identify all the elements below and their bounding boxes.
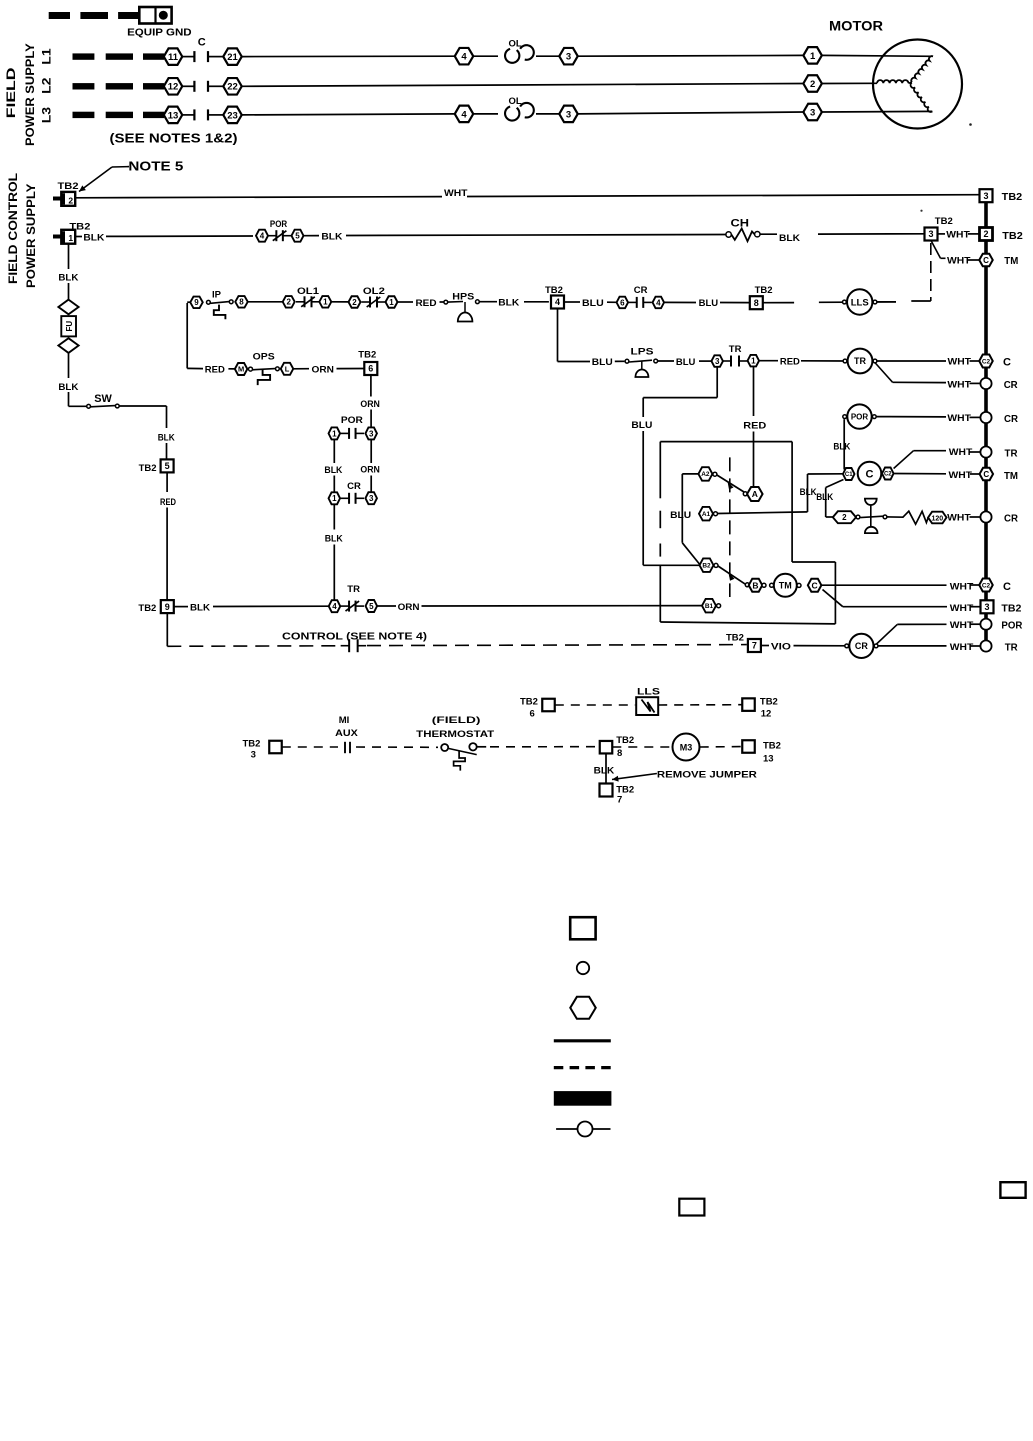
svg-text:4: 4	[555, 297, 560, 307]
svg-text:L2: L2	[39, 77, 53, 94]
svg-text:LPS: LPS	[631, 347, 654, 358]
svg-text:WHT: WHT	[950, 581, 974, 592]
svg-text:LLS: LLS	[851, 297, 869, 308]
svg-text:8: 8	[754, 298, 759, 308]
svg-text:BLK: BLK	[158, 433, 175, 444]
svg-text:1: 1	[323, 298, 328, 307]
svg-text:2: 2	[842, 513, 847, 522]
svg-text:3: 3	[715, 357, 720, 366]
svg-text:120: 120	[931, 515, 943, 522]
svg-text:4: 4	[260, 232, 265, 241]
svg-text:L: L	[285, 365, 290, 374]
svg-text:CR: CR	[1004, 379, 1018, 391]
svg-text:WHT: WHT	[947, 513, 971, 524]
svg-text:7: 7	[752, 641, 757, 651]
svg-text:REMOVE JUMPER: REMOVE JUMPER	[657, 770, 757, 781]
svg-text:TR: TR	[1005, 641, 1018, 653]
svg-text:M: M	[238, 365, 244, 374]
svg-text:4: 4	[656, 298, 661, 307]
svg-text:TB2: TB2	[763, 740, 781, 751]
svg-text:22: 22	[227, 82, 238, 93]
svg-text:ORN: ORN	[360, 399, 380, 410]
svg-text:IP: IP	[212, 289, 222, 300]
svg-text:TB2: TB2	[760, 696, 778, 707]
svg-text:A: A	[752, 489, 758, 499]
svg-text:13: 13	[168, 110, 179, 121]
svg-text:WHT: WHT	[950, 620, 974, 631]
svg-text:BLK: BLK	[594, 766, 615, 777]
svg-text:TB2: TB2	[1002, 230, 1023, 242]
svg-text:A2: A2	[701, 471, 710, 478]
svg-text:BLU: BLU	[670, 510, 691, 521]
svg-text:CONTROL (SEE NOTE 4): CONTROL (SEE NOTE 4)	[282, 631, 427, 643]
svg-text:CH: CH	[731, 218, 750, 230]
svg-text:C: C	[983, 470, 989, 479]
svg-text:BLK: BLK	[58, 382, 78, 393]
svg-text:POR: POR	[341, 415, 363, 426]
svg-text:8: 8	[617, 748, 622, 759]
svg-text:FIELD CONTROL: FIELD CONTROL	[6, 173, 20, 284]
svg-text:RED: RED	[205, 364, 225, 375]
svg-text:TM: TM	[779, 581, 792, 591]
svg-text:TB2: TB2	[358, 349, 376, 360]
svg-text:BLK: BLK	[498, 298, 519, 309]
svg-text:L1: L1	[39, 48, 53, 65]
svg-text:C2: C2	[982, 582, 991, 589]
svg-text:WHT: WHT	[444, 188, 468, 199]
svg-text:13: 13	[763, 754, 774, 765]
svg-text:B1: B1	[705, 603, 714, 610]
svg-text:LLS: LLS	[637, 687, 660, 698]
svg-text:(FIELD): (FIELD)	[432, 715, 481, 726]
svg-text:WHT: WHT	[949, 470, 973, 481]
svg-text:TB2: TB2	[616, 735, 634, 746]
svg-text:WHT: WHT	[950, 603, 974, 614]
svg-text:WHT: WHT	[946, 230, 970, 241]
svg-text:MOTOR: MOTOR	[829, 19, 883, 34]
svg-text:POR: POR	[270, 219, 287, 230]
svg-text:TB2: TB2	[935, 216, 953, 227]
svg-text:TR: TR	[1005, 448, 1018, 460]
svg-text:EQUIP GND: EQUIP GND	[127, 27, 192, 39]
svg-text:6: 6	[368, 364, 373, 374]
svg-text:ORN: ORN	[312, 364, 335, 375]
svg-text:BLU: BLU	[699, 298, 719, 309]
svg-text:CR: CR	[634, 285, 648, 296]
svg-text:BLK: BLK	[324, 465, 342, 476]
svg-text:2: 2	[810, 79, 815, 90]
svg-text:CR: CR	[855, 641, 868, 651]
svg-text:9: 9	[194, 298, 199, 307]
svg-text:WHT: WHT	[947, 413, 971, 424]
svg-text:C: C	[1003, 581, 1011, 593]
svg-text:FU: FU	[65, 321, 74, 332]
svg-text:6: 6	[620, 298, 625, 307]
svg-text:6: 6	[530, 709, 535, 720]
svg-text:OPS: OPS	[253, 352, 275, 363]
svg-text:1: 1	[332, 494, 337, 503]
svg-text:C: C	[983, 256, 989, 265]
svg-text:MI: MI	[339, 715, 350, 726]
svg-text:TB2: TB2	[138, 603, 156, 614]
svg-text:TM: TM	[1004, 255, 1018, 267]
svg-text:23: 23	[227, 110, 238, 121]
svg-text:BLK: BLK	[58, 273, 78, 284]
svg-text:TB2: TB2	[755, 285, 773, 296]
svg-text:TB2: TB2	[243, 739, 261, 750]
svg-text:CR: CR	[1004, 413, 1018, 425]
svg-text:OL1: OL1	[297, 286, 320, 297]
svg-text:HPS: HPS	[452, 292, 474, 303]
svg-text:TB2: TB2	[1002, 191, 1023, 203]
svg-text:BLU: BLU	[592, 357, 613, 368]
svg-text:C2: C2	[982, 358, 991, 365]
svg-text:RED: RED	[160, 497, 176, 508]
svg-text:12: 12	[168, 82, 179, 93]
svg-text:1: 1	[810, 51, 816, 62]
svg-text:4: 4	[461, 109, 467, 120]
svg-text:C: C	[866, 468, 874, 480]
svg-text:3: 3	[566, 109, 571, 120]
svg-text:TB2: TB2	[520, 696, 538, 707]
svg-text:RED: RED	[780, 356, 800, 367]
svg-text:1: 1	[332, 429, 337, 438]
svg-text:RED: RED	[416, 298, 437, 309]
svg-text:BLK: BLK	[321, 232, 342, 243]
svg-text:M3: M3	[680, 743, 693, 753]
svg-text:WHT: WHT	[950, 642, 974, 653]
svg-text:5: 5	[369, 602, 374, 611]
svg-text:2: 2	[286, 298, 291, 307]
svg-text:OL: OL	[509, 38, 522, 49]
svg-text:(SEE NOTES 1&2): (SEE NOTES 1&2)	[110, 131, 238, 146]
svg-text:3: 3	[369, 429, 374, 438]
svg-text:1: 1	[389, 298, 394, 307]
svg-text:3: 3	[928, 229, 933, 239]
svg-text:WHT: WHT	[949, 447, 973, 458]
svg-text:2: 2	[352, 298, 357, 307]
svg-text:POR: POR	[1001, 619, 1022, 631]
svg-text:2: 2	[983, 229, 988, 239]
svg-text:THERMOSTAT: THERMOSTAT	[416, 729, 494, 740]
svg-text:L3: L3	[39, 107, 53, 124]
svg-text:1: 1	[751, 357, 756, 366]
svg-text:B: B	[752, 580, 758, 590]
svg-text:RED: RED	[743, 421, 766, 432]
svg-text:TR: TR	[854, 356, 866, 366]
svg-text:TR: TR	[347, 584, 360, 595]
svg-text:BLU: BLU	[676, 357, 696, 368]
svg-text:VIO: VIO	[771, 641, 791, 652]
svg-text:SW: SW	[94, 393, 112, 405]
svg-text:BLK: BLK	[779, 233, 800, 244]
svg-text:3: 3	[369, 494, 374, 503]
svg-text:C: C	[812, 580, 818, 590]
svg-text:NOTE 5: NOTE 5	[128, 159, 183, 174]
svg-text:AUX: AUX	[335, 728, 358, 739]
svg-text:OL2: OL2	[363, 286, 385, 297]
svg-text:C1: C1	[845, 472, 853, 478]
svg-text:C: C	[1003, 357, 1011, 369]
svg-text:C: C	[198, 36, 206, 48]
svg-text:BLU: BLU	[582, 298, 604, 309]
svg-text:BLK: BLK	[816, 492, 833, 503]
svg-text:3: 3	[983, 191, 988, 201]
svg-text:21: 21	[227, 52, 238, 63]
svg-text:1: 1	[68, 233, 73, 243]
svg-text:ORN: ORN	[398, 602, 420, 613]
svg-text:FIELD: FIELD	[4, 67, 18, 118]
svg-text:TB2: TB2	[726, 632, 744, 643]
svg-text:4: 4	[332, 602, 337, 611]
svg-text:POWER SUPPLY: POWER SUPPLY	[24, 184, 38, 288]
svg-text:A1: A1	[702, 511, 711, 518]
svg-text:4: 4	[461, 52, 467, 63]
svg-text:3: 3	[566, 52, 571, 63]
svg-text:BLK: BLK	[190, 603, 210, 614]
svg-text:BLK: BLK	[83, 233, 104, 244]
svg-text:POR: POR	[851, 412, 869, 421]
svg-text:3: 3	[251, 749, 256, 760]
svg-text:TB2: TB2	[139, 463, 157, 474]
svg-text:TB2: TB2	[1001, 603, 1021, 615]
svg-text:WHT: WHT	[947, 379, 971, 390]
svg-text:BLK: BLK	[325, 534, 343, 545]
svg-text:7: 7	[617, 795, 622, 806]
svg-text:CR: CR	[1004, 513, 1018, 525]
svg-text:TR: TR	[729, 344, 742, 355]
svg-text:8: 8	[239, 298, 244, 307]
svg-text:5: 5	[295, 232, 300, 241]
svg-text:2: 2	[68, 195, 73, 205]
svg-text:WHT: WHT	[947, 255, 971, 266]
svg-text:CR: CR	[347, 481, 361, 492]
svg-text:POWER SUPPLY: POWER SUPPLY	[23, 43, 37, 146]
svg-text:9: 9	[165, 602, 170, 612]
svg-text:BLU: BLU	[631, 420, 652, 431]
svg-text:B2: B2	[702, 563, 711, 570]
svg-text:TB2: TB2	[58, 181, 79, 192]
svg-text:3: 3	[984, 602, 989, 612]
svg-text:3: 3	[810, 107, 815, 118]
svg-text:OL: OL	[509, 96, 522, 107]
svg-text:C2: C2	[884, 472, 892, 478]
svg-text:11: 11	[168, 52, 179, 63]
svg-text:ORN: ORN	[360, 464, 380, 475]
svg-text:12: 12	[761, 709, 772, 720]
svg-text:5: 5	[165, 461, 170, 471]
svg-text:WHT: WHT	[948, 357, 972, 368]
svg-text:BLK: BLK	[833, 442, 850, 453]
svg-text:TM: TM	[1004, 470, 1018, 482]
